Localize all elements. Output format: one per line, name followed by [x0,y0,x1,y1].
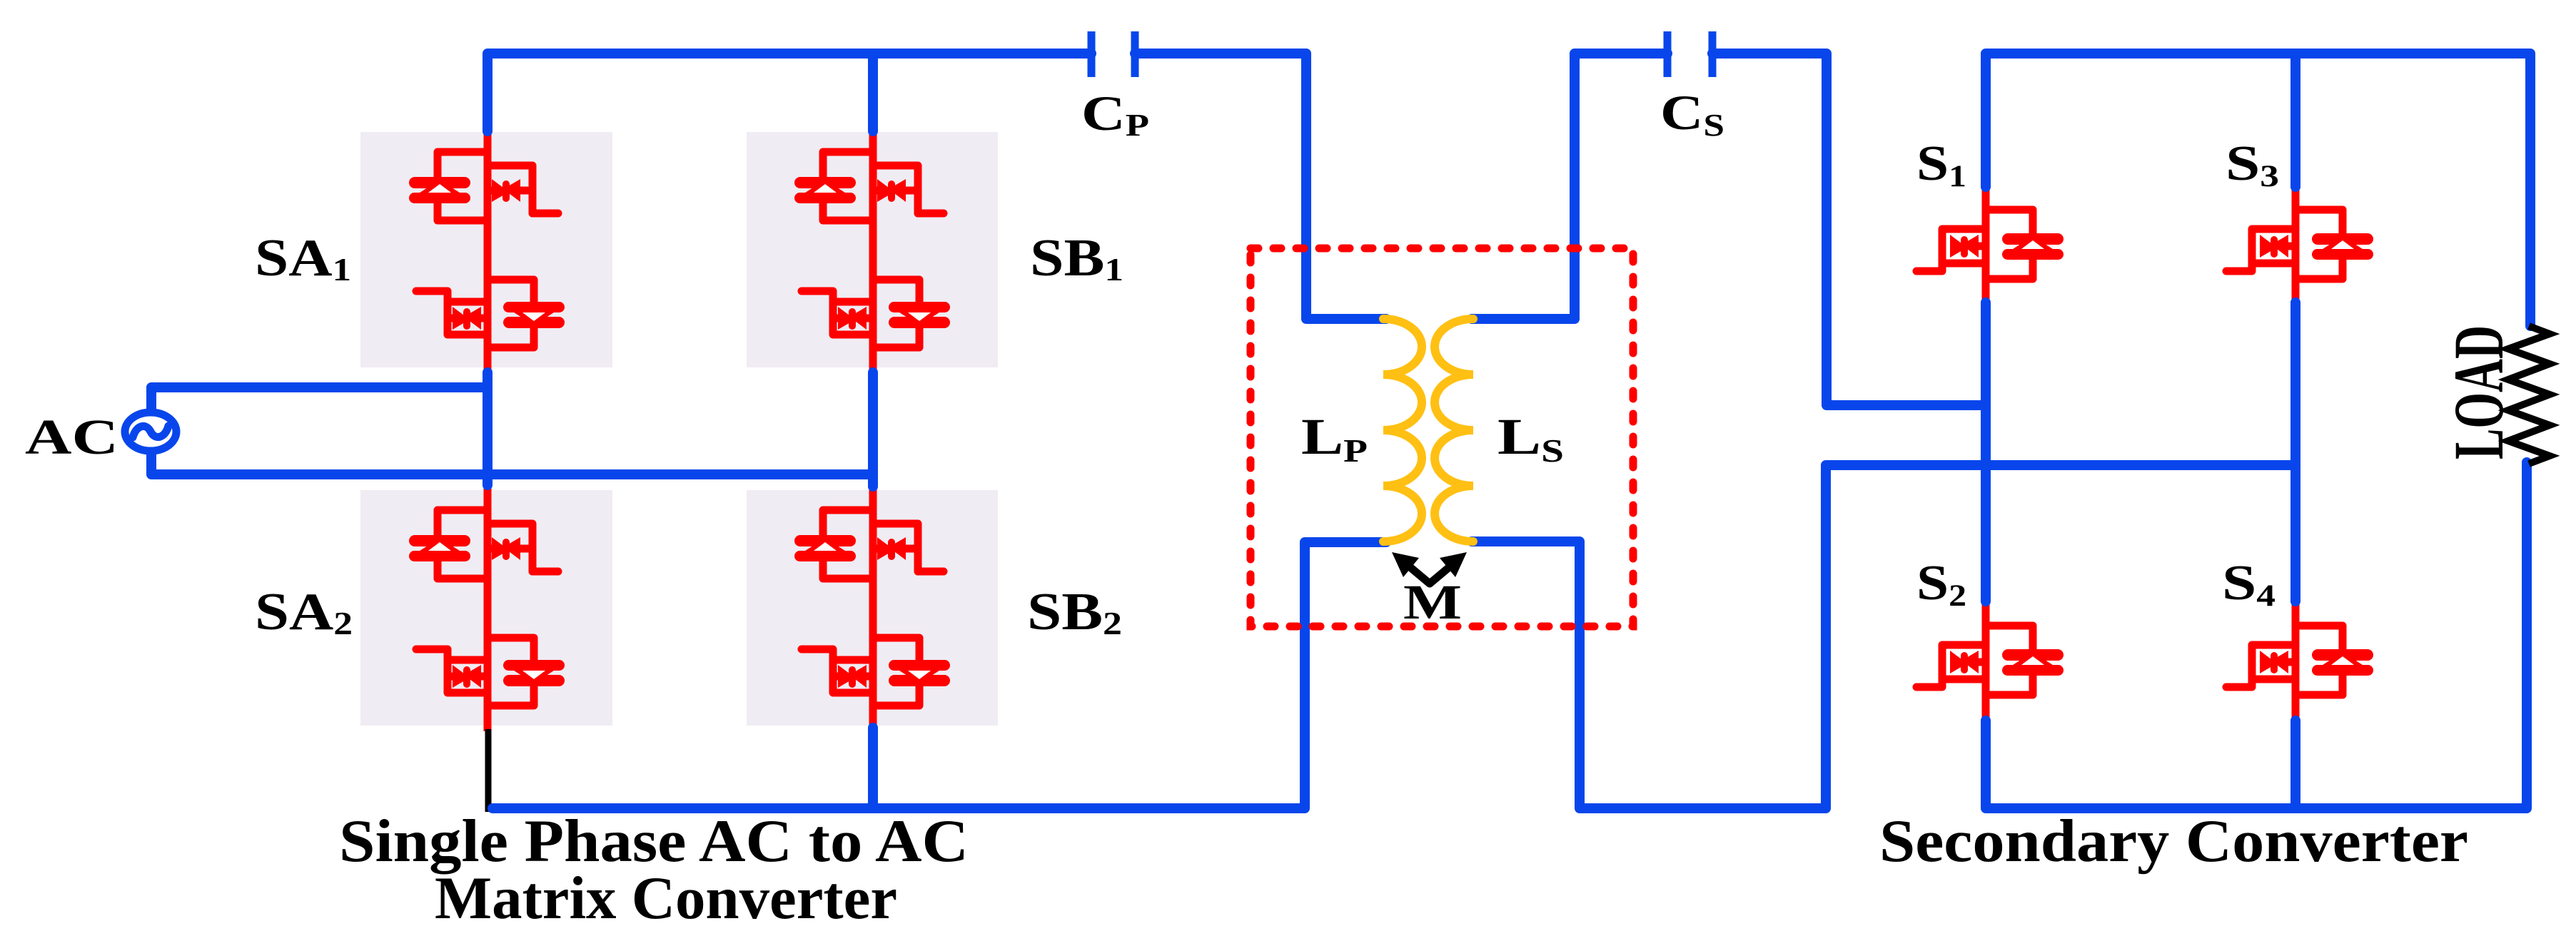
wire CS to S1S2 midpoint [1712,54,1986,405]
ac source AC [125,412,176,451]
wire black SA2 bottom segment [485,729,492,812]
switch SA1 lower cell [416,280,565,347]
switch SA2 upper cell [409,510,558,579]
wire S1S2 mid leg [1981,302,1991,601]
switch SA2 leg (red) [484,482,492,731]
inductor LS coil [1435,319,1473,541]
wire AC top lead [151,387,488,416]
svg-text:AC: AC [25,410,118,465]
wire AC bottom lead [151,447,873,474]
switch SB2 lower cell [802,638,950,706]
switch SA1 leg (red) [484,126,492,377]
wire S4 bottom [2290,721,2300,808]
transformer coupling dashed box [1251,248,1633,626]
switch SB1 highlight box [747,132,998,367]
capacitor CS [1667,31,1712,77]
inductor LP coil [1383,319,1422,541]
switch SB2 upper cell [794,510,944,579]
resistor LOAD zigzag [2508,326,2550,464]
wire SA mid [483,372,493,485]
wire CP to LP top lead [1135,54,1386,319]
switch SB1 leg (red) [869,126,877,377]
svg-text:Secondary Converter: Secondary Converter [1879,808,2468,875]
wire SB2 bottom [868,728,878,808]
switch S2 leg (red) [1982,599,1990,723]
switch SA1 highlight box [360,132,612,367]
wire S2 bottom + secondary bottom rail + load bottom [1986,462,2527,808]
switch SB1 lower cell [802,280,950,347]
wire S3 top [2290,54,2300,187]
svg-text:M: M [1403,575,1462,629]
switch S3 cell [2226,210,2373,279]
switch SB1 upper cell [794,152,944,220]
switch S1 cell [1916,210,2064,279]
switch SA2 highlight box [360,490,612,726]
switch S4 leg (red) [2292,599,2300,723]
switch S1 leg (red) [1982,183,1990,307]
wire LS top lead to CS [1472,54,1667,319]
switch SA1 upper cell [409,152,558,220]
switch S3 leg (red) [2292,183,2300,307]
wire S1 top + secondary top rail + load top [1986,54,2530,326]
switch SB2 leg (red) [869,482,877,731]
wire SB1 top [868,54,878,131]
switch SA2 lower cell [416,638,565,706]
wire SB mid [868,372,878,487]
switch SB2 highlight box [747,490,998,726]
capacitor CP [1091,31,1135,77]
mutual inductance arrow M [1392,552,1467,584]
wire SA1 top + primary top rail to CP [488,54,1091,131]
svg-text:LOAD: LOAD [2439,325,2518,459]
svg-text:Matrix Converter: Matrix Converter [435,865,897,932]
wire LS bottom lead to S3S4 midpoint [1472,465,2295,808]
switch S4 cell [2226,626,2373,695]
wire primary bottom rail + LP bottom lead [493,542,1386,808]
wire S3S4 mid leg [2290,302,2300,601]
switch S2 cell [1916,626,2064,695]
